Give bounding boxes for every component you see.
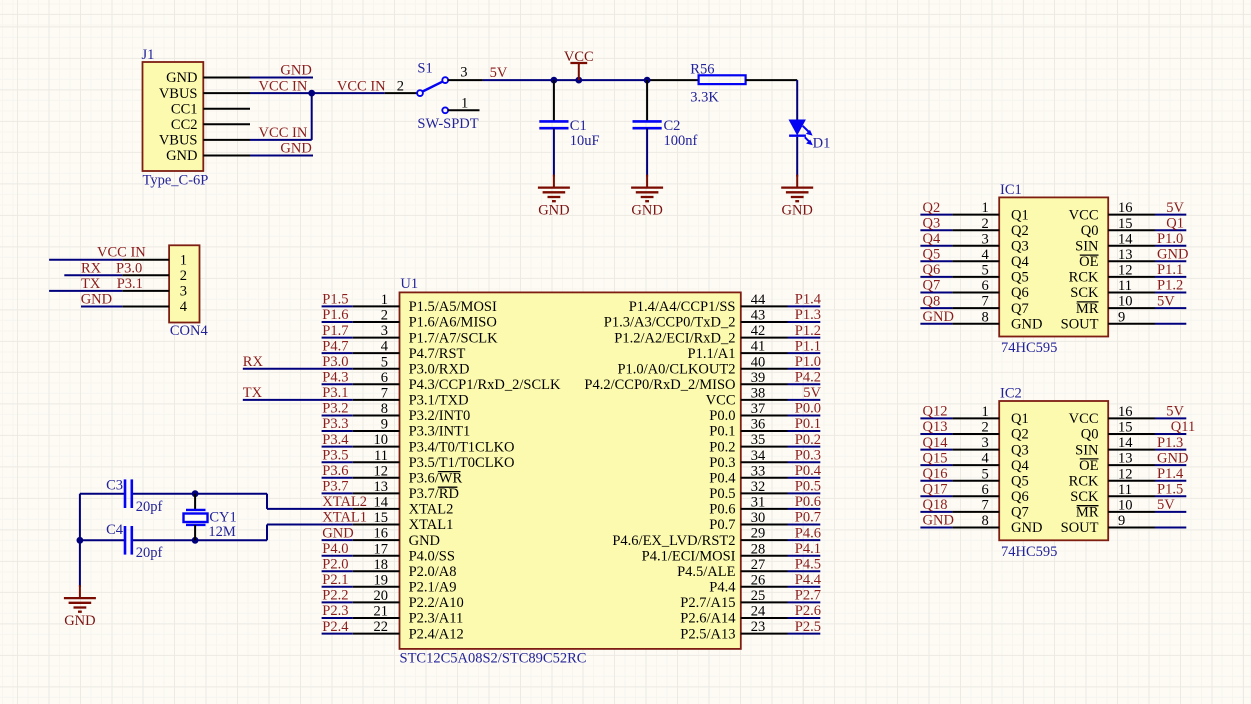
wire at U1 pin 34 [788,461,821,463]
svg-text:P0.6: P0.6 [795,494,821,510]
svg-text:GND: GND [1011,316,1042,332]
C1 designator label [570,118,587,134]
net label P3.0 on U1 pin 5 [322,354,348,370]
svg-text:VBUS: VBUS [159,86,198,102]
ground symbol below D1 [781,175,813,219]
wire at IC2 pin 7 [920,511,952,513]
U1 pin 22 P2.4/A12 [353,619,464,642]
switch S1 pin 1 [448,95,479,111]
wire GND from J1 pin 6 [250,155,313,157]
ground symbol below C1 [538,175,570,219]
svg-text:P1.2: P1.2 [795,323,821,339]
net label GND on CON4 pin4 [81,292,112,308]
net label Q2 on IC1 pin 1 [923,200,941,216]
C1 value label 10uF [570,133,600,149]
net label 5V on IC1 pin 10 [1157,293,1175,309]
J1 pin 5 VBUS [159,133,250,149]
svg-text:3: 3 [180,284,187,300]
net label P2.0 on U1 pin 18 [322,557,348,573]
svg-text:GND: GND [631,202,662,218]
svg-text:2: 2 [397,78,404,94]
wire GND to CON4 pin 4 [81,306,122,308]
svg-text:Q4: Q4 [923,231,941,247]
svg-text:SCK: SCK [1070,489,1099,505]
wire GND from J1 pin 1 [250,77,313,79]
svg-text:P0.1: P0.1 [795,416,821,432]
svg-text:SW-SPDT: SW-SPDT [417,116,478,132]
net label GND on IC2 pin 8 [923,513,954,529]
wire at IC2 pin 12 [1155,480,1186,482]
wire at IC1 pin 10 [1155,307,1186,309]
svg-text:P3.2: P3.2 [322,401,348,417]
svg-text:P2.1/A9: P2.1/A9 [409,580,457,596]
svg-text:P1.0/A0/CLKOUT2: P1.0/A0/CLKOUT2 [617,361,735,377]
net label 5V on IC2 pin 10 [1157,497,1175,513]
svg-text:P3.2/INT0: P3.2/INT0 [409,408,471,424]
C3 value label 20pf [136,499,163,515]
wire 5V rail C2 to R56 [647,79,699,81]
net label P2.4 on U1 pin 22 [322,619,349,635]
net label P4.7 on U1 pin 4 [322,338,348,354]
svg-text:XTAL2: XTAL2 [409,502,454,518]
svg-text:P2.2: P2.2 [322,588,348,604]
wire rail to C2 [646,80,648,121]
U1 pin 32 P0.5 [709,479,787,502]
wire at U1 pin 29 [788,539,821,541]
svg-text:P3.5/T1/T0CLKO: P3.5/T1/T0CLKO [409,455,515,471]
wire at IC2 pin 11 [1155,495,1186,497]
svg-text:20pf: 20pf [136,499,163,515]
net label GND on IC2 pin 13 [1157,450,1188,466]
svg-text:VBUS: VBUS [159,133,198,149]
svg-text:P4.3/CCP1/RxD_2/SCLK: P4.3/CCP1/RxD_2/SCLK [409,377,561,393]
svg-text:CC2: CC2 [171,117,198,133]
U1 pin 38 VCC [706,386,788,409]
net label P1.1 on IC1 pin 12 [1157,262,1183,278]
svg-text:74HC595: 74HC595 [1001,544,1057,560]
IC1 pin 13 OE [1079,247,1155,270]
svg-text:SOUT: SOUT [1061,316,1099,332]
U1 pin 36 P0.1 [709,417,787,440]
svg-text:P1.0: P1.0 [1157,231,1183,247]
svg-text:Q4: Q4 [1011,254,1029,270]
svg-text:P2.1: P2.1 [322,572,348,588]
svg-text:Q5: Q5 [923,247,941,263]
svg-text:VCC IN: VCC IN [259,125,308,141]
U1 pin 43 P1.3/A3/CCP0/TxD_2 [604,308,788,331]
svg-text:5V: 5V [1157,293,1175,309]
wire at IC2 pin 9 [1155,527,1186,529]
wire at U1 pin 19 [322,586,353,588]
wire at U1 pin 12 [322,477,353,479]
svg-text:CY1: CY1 [209,510,236,526]
svg-text:P0.4: P0.4 [709,471,736,487]
svg-text:C1: C1 [570,118,587,134]
wire at U1 pin 16 [322,539,353,541]
svg-text:Q2: Q2 [1011,223,1029,239]
CON4 pin 3 [122,284,187,300]
svg-text:Q14: Q14 [923,435,949,451]
net label P1.6 on U1 pin 2 [322,307,348,323]
junction at ground branch [77,537,84,544]
net label 5V on IC2 pin 16 [1166,404,1184,420]
net label 5V on U1 pin 38 [803,385,821,401]
svg-text:P4.5: P4.5 [795,557,821,573]
svg-text:Q12: Q12 [923,404,948,420]
wire at IC1 pin 16 [1155,214,1186,216]
svg-text:P3.6: P3.6 [322,463,348,479]
svg-text:GND: GND [64,613,95,629]
wire at IC2 pin 2 [920,433,952,435]
net label P2.2 on U1 pin 20 [322,588,348,604]
svg-text:P4.1/ECI/MOSI: P4.1/ECI/MOSI [642,548,736,564]
net label Q6 on IC1 pin 5 [923,262,941,278]
svg-text:U1: U1 [400,276,418,292]
U1 pin 25 P2.7/A15 [680,588,787,611]
svg-text:P1.4: P1.4 [795,292,822,308]
svg-text:P4.4: P4.4 [795,572,822,588]
net label P4.3 on U1 pin 6 [322,370,348,386]
net label P1.4 on U1 pin 44 [795,292,822,308]
svg-text:MR: MR [1076,301,1099,317]
capacitor C2 [633,121,662,128]
svg-text:P4.1: P4.1 [795,541,821,557]
wire at IC1 pin 5 [920,276,952,278]
svg-text:P1.4/A4/CCP1/SS: P1.4/A4/CCP1/SS [629,299,736,315]
net label GND on U1 pin 16 [322,525,353,541]
svg-text:TX: TX [243,385,263,401]
capacitor C3 [125,479,132,508]
svg-text:P2.2/A10: P2.2/A10 [409,595,464,611]
switch S1 blade [423,82,443,92]
svg-text:12M: 12M [208,524,236,540]
net label P1.1 on U1 pin 41 [795,338,821,354]
svg-text:P1.1: P1.1 [1157,262,1183,278]
net label Q15 on IC2 pin 4 [923,450,948,466]
S1 value label SW-SPDT [417,116,478,132]
net label Q13 on IC2 pin 2 [923,419,948,435]
U1 pin 39 P4.2/CCP0/RxD_2/MISO [584,370,787,393]
IC2 pin 8 GND [952,513,1042,536]
svg-text:P3.0: P3.0 [116,260,142,276]
svg-text:GND: GND [1011,520,1042,536]
ground symbol below C2 [631,175,663,219]
C2 value label 100nf [664,133,698,149]
svg-text:P3.4/T0/T1CLKO: P3.4/T0/T1CLKO [409,439,515,455]
U1 pin 10 P3.4/T0/T1CLKO [353,432,515,455]
svg-text:GND: GND [280,63,311,79]
net label 5V on rail [490,65,508,81]
wire at U1 pin 2 [322,321,353,323]
svg-text:P1.6/A6/MISO: P1.6/A6/MISO [409,315,497,331]
svg-text:2: 2 [180,268,187,284]
svg-text:SOUT: SOUT [1061,520,1099,536]
wire R56 to D1 corner [746,80,798,119]
U1 pin 27 P4.5/ALE [677,557,787,580]
U1 pin 4 P4.7/RST [353,339,466,362]
wire at IC2 pin 10 [1155,511,1186,513]
svg-text:Type_C-6P: Type_C-6P [143,173,209,189]
svg-text:P3.0: P3.0 [322,354,348,370]
wire at U1 pin 36 [788,430,821,432]
svg-text:P3.6/WR: P3.6/WR [409,471,463,487]
U1 pin 33 P0.4 [709,463,787,486]
svg-text:MR: MR [1076,505,1099,521]
svg-text:C3: C3 [106,478,123,494]
svg-text:Q6: Q6 [923,262,941,278]
net label P4.1 on U1 pin 28 [795,541,821,557]
power port VCC [564,49,594,80]
svg-text:Q5: Q5 [1011,270,1029,286]
svg-text:Q0: Q0 [1081,427,1099,443]
IC2 pin 16 VCC [1069,404,1155,427]
net label P1.3 on IC2 pin 14 [1157,435,1183,451]
net label P3.1 on CON4 pin3 [117,276,143,292]
svg-text:P3.7/RD: P3.7/RD [409,486,459,502]
capacitor C4 [125,526,132,555]
svg-text:P3.4: P3.4 [322,432,349,448]
svg-text:P1.3/A3/CCP0/TxD_2: P1.3/A3/CCP0/TxD_2 [604,315,736,331]
svg-text:SCK: SCK [1070,285,1099,301]
wire at IC1 pin 12 [1155,276,1186,278]
wire at U1 pin 27 [788,570,821,572]
net label P0.0 on U1 pin 37 [795,401,821,417]
svg-text:CON4: CON4 [170,323,209,339]
svg-text:P2.5: P2.5 [795,619,821,635]
wire at IC1 pin 11 [1155,292,1186,294]
U1 value label STC12C5A08S2/STC89C52RC [400,651,587,667]
CON4 pin 1 [122,252,187,268]
svg-text:Q1: Q1 [1166,215,1184,231]
svg-text:P4.0: P4.0 [322,541,348,557]
wire RX to U1 pin 5 [243,368,353,370]
net label P2.5 on U1 pin 23 [795,619,821,635]
net label P2.7 on U1 pin 25 [795,588,821,604]
svg-text:IC1: IC1 [1000,182,1022,198]
svg-text:XTAL2: XTAL2 [322,494,367,510]
svg-text:Q2: Q2 [923,200,941,216]
svg-text:Q6: Q6 [1011,285,1029,301]
IC2 pin 13 OE [1079,451,1155,474]
IC2 pin 9 SOUT [1061,513,1155,536]
net label XTAL1 on U1 pin 15 [322,510,367,526]
svg-text:D1: D1 [813,136,831,152]
net label P1.0 on U1 pin 40 [795,354,821,370]
svg-text:S1: S1 [417,61,432,77]
net label Q7 on IC1 pin 6 [923,278,941,294]
net label Q12 on IC2 pin 1 [923,404,948,420]
U1 pin 7 P3.1/TXD [353,386,469,409]
net label P4.4 on U1 pin 26 [795,572,822,588]
wire at U1 pin 10 [322,446,353,448]
svg-text:RX: RX [81,260,102,276]
U1 pin 19 P2.1/A9 [353,572,457,595]
svg-text:100nf: 100nf [664,133,698,149]
wire VCC_IN to switch S1 [312,92,385,94]
IC1 pin 5 Q5 [952,263,1028,286]
net label 5V on IC1 pin 16 [1166,200,1184,216]
svg-text:Q7: Q7 [923,278,941,294]
net label P1.7 on U1 pin 3 [322,323,348,339]
net label P1.4 on IC2 pin 12 [1157,466,1184,482]
net label Q4 on IC1 pin 3 [923,231,941,247]
U1 pin 41 P1.1/A1 [688,339,788,362]
wire VCC_IN from J1 pin 5 [250,139,312,141]
J1 pin 1 GND [166,70,250,86]
svg-text:GND: GND [1157,450,1188,466]
svg-text:Q4: Q4 [1011,458,1029,474]
wire at U1 pin 37 [788,415,821,417]
wire vertical joining J1 VBUS pins [311,93,313,140]
wire at IC1 pin 1 [920,214,952,216]
CON4 pin 4 [122,299,187,315]
net label VCC IN near S1 [337,78,386,94]
svg-text:Q11: Q11 [1171,419,1195,435]
J1 pin 3 CC1 [171,101,250,117]
wire crystal to U1 pin 14 [267,508,353,510]
IC1 pin 7 Q7 [952,294,1028,317]
wire at IC1 pin 9 [1155,323,1186,325]
wire at U1 pin 23 [788,633,821,635]
C4 designator label [106,522,124,538]
svg-text:RX: RX [243,354,264,370]
S1 designator label [417,61,432,77]
net label RX on U1 pin 5 wire [243,354,264,370]
net label P3.2 on U1 pin 8 [322,401,348,417]
net label P4.0 on U1 pin 17 [322,541,348,557]
svg-text:P0.4: P0.4 [795,463,822,479]
svg-text:RCK: RCK [1069,473,1099,489]
svg-text:GND: GND [322,525,353,541]
svg-text:Q3: Q3 [1011,442,1029,458]
svg-text:P2.3/A11: P2.3/A11 [409,611,464,627]
svg-text:GND: GND [781,202,812,218]
net label Q11 on IC2 pin 15 [1171,419,1195,435]
wire at U1 pin 18 [322,570,353,572]
svg-text:Q0: Q0 [1081,223,1099,239]
wire rail to C1 [553,80,555,121]
IC2 pin 7 Q7 [952,498,1028,521]
wire at U1 pin 9 [322,430,353,432]
svg-text:P0.2: P0.2 [795,432,821,448]
svg-text:5V: 5V [1166,200,1184,216]
wire at IC2 pin 4 [920,464,952,466]
svg-text:5V: 5V [490,65,508,81]
switch S1 throw contact 1 [442,107,448,113]
junction at VCC tap [575,77,582,84]
U1 pin 28 P4.1/ECI/MOSI [642,541,788,564]
svg-text:P3.3: P3.3 [322,416,348,432]
net label RX on CON4 pin2 [81,260,102,276]
svg-text:P0.6: P0.6 [709,502,735,518]
wire at IC1 pin 2 [920,229,952,231]
wire crystal to U1 pin 15 [267,524,353,526]
wire at U1 pin 30 [788,524,821,526]
svg-text:P3.3/INT1: P3.3/INT1 [409,424,471,440]
svg-text:P4.3: P4.3 [322,370,348,386]
svg-text:P3.5: P3.5 [322,447,348,463]
junction at J1 VBUS node [308,90,315,97]
svg-text:P1.5/A5/MOSI: P1.5/A5/MOSI [409,299,497,315]
svg-text:P4.7/RST: P4.7/RST [409,346,466,362]
IC1 pin 12 RCK [1069,263,1155,286]
switch S1 pin 3 [448,65,483,81]
net label P0.5 on U1 pin 32 [795,479,821,495]
svg-text:STC12C5A08S2/STC89C52RC: STC12C5A08S2/STC89C52RC [400,651,587,667]
net label P2.3 on U1 pin 21 [322,603,348,619]
svg-text:Q2: Q2 [1011,427,1029,443]
net label Q14 on IC2 pin 3 [923,435,949,451]
IC1 pin 1 Q1 [952,200,1028,223]
svg-text:P1.3: P1.3 [795,307,821,323]
svg-text:XTAL1: XTAL1 [409,517,454,533]
svg-text:GND: GND [923,513,954,529]
switch S1 common contact [417,90,423,96]
CY1 value label 12M [208,524,236,540]
svg-text:C4: C4 [106,522,124,538]
U1 pin 20 P2.2/A10 [353,588,464,611]
net label P0.3 on U1 pin 34 [795,447,821,463]
net label P3.5 on U1 pin 11 [322,447,348,463]
svg-text:GND: GND [923,309,954,325]
net label P2.6 on U1 pin 24 [795,603,821,619]
svg-text:P4.5/ALE: P4.5/ALE [677,564,736,580]
wire D1 to ground [796,137,798,177]
wire left vertical of crystal circuit [79,494,81,587]
wire at U1 pin 24 [788,617,821,619]
svg-text:10uF: 10uF [570,133,600,149]
net label P1.5 on IC2 pin 11 [1157,482,1183,498]
net label P3.0 on CON4 pin2 [116,260,142,276]
svg-text:P3.1/TXD: P3.1/TXD [409,393,469,409]
net label Q18 on IC2 pin 7 [923,497,948,513]
wire at U1 pin 26 [788,586,821,588]
net label P0.7 on U1 pin 30 [795,510,821,526]
net label P1.5 on U1 pin 1 [322,292,348,308]
net label P1.2 on IC1 pin 11 [1157,278,1183,294]
wire TX to U1 pin 7 [243,399,353,401]
J1 pin 4 CC2 [171,117,250,133]
IC1 pin 3 Q3 [952,231,1028,254]
svg-text:P2.0/A8: P2.0/A8 [409,564,457,580]
U1 pin 24 P2.6/A14 [680,604,787,627]
U1 pin 12 P3.6/WR [353,463,463,486]
wire at IC1 pin 6 [920,292,952,294]
wire at IC1 pin 4 [920,260,952,262]
C3 designator label [106,478,123,494]
svg-text:P4.7: P4.7 [322,338,348,354]
net label P1.0 on IC1 pin 14 [1157,231,1183,247]
IC1 designator label [1000,182,1022,198]
wire at U1 pin 20 [322,601,353,603]
net label P4.6 on U1 pin 29 [795,525,821,541]
net label P2.1 on U1 pin 19 [322,572,348,588]
wire crystal top rail [80,494,267,509]
wire at U1 pin 31 [788,508,821,510]
C2 designator label [664,118,681,134]
svg-text:P1.4: P1.4 [1157,466,1184,482]
U1 pin 14 XTAL2 [353,495,454,518]
svg-text:J1: J1 [142,47,155,63]
svg-text:Q15: Q15 [923,450,948,466]
IC IC2 body [999,401,1108,540]
IC1 pin 10 MR [1076,294,1155,317]
svg-text:Q5: Q5 [1011,473,1029,489]
IC2 pin 11 SCK [1070,482,1155,505]
IC1 value label 74HC595 [1001,340,1057,356]
R56 designator label [690,62,714,78]
svg-text:IC2: IC2 [1000,386,1022,402]
